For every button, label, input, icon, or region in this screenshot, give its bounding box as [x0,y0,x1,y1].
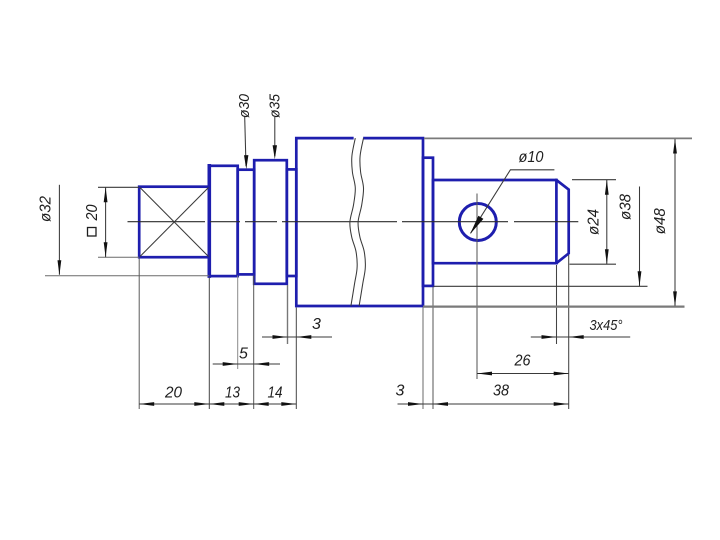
dimension line dia48 [674,139,676,307]
arrow 26 right (points right) [554,372,569,376]
collar lip dia38 [423,158,433,286]
dimension line 5 [213,363,280,365]
dimension line 38 with 3-lip tail [398,403,569,405]
arrow dia38 bottom [638,271,642,286]
arrow chain left at 139 (points left) [139,402,154,406]
leader line dia10 with shelf [471,170,555,233]
centre axis line (dashed) [128,221,579,223]
arrow 5 left (outside, points right) [223,362,238,366]
extension line: square top (for sq20) [98,186,139,188]
svg-text:ø38: ø38 [617,194,634,220]
dimension line dia24 [606,180,608,265]
groove land dia30 (5 mm wide) [238,170,255,275]
svg-text:ø24: ø24 [585,209,602,235]
arrow dia24 bottom [605,249,609,264]
extension line: dia32 bottom [45,275,209,277]
right journal dia24 with 3x45 chamfer [433,180,569,263]
svg-text:14: 14 [268,385,283,402]
svg-text:ø48: ø48 [652,208,669,234]
square end diagonal 2 [140,188,209,257]
shaft section 3 (dia 35) [254,160,287,284]
svg-text:3x45°: 3x45° [590,317,623,334]
extension line: dia48 bottom (grey, thick) [423,306,685,308]
dimension line sq20 [105,187,107,257]
dimension line dia32 [58,185,60,275]
arrow dia48 top [673,139,677,154]
break line left (thin S-curve) [350,138,357,306]
svg-text:26: 26 [514,353,531,370]
arrow 3 lip left (points right) [408,402,423,406]
svg-text:ø35: ø35 [267,93,284,118]
svg-text:ø10: ø10 [519,149,544,166]
square symbol of sq20 label [88,228,97,237]
leader line dia35 [274,117,276,156]
leader line dia30 [245,117,246,166]
extension line: square bottom (sq20) [98,256,139,258]
main body dia48 outline with break gap on top edge [296,138,423,306]
extension line: groove left (5-dim) [237,276,239,370]
arrow 14 right at 296.3 (points right) [281,402,296,406]
dimension line 3 (relief groove) [262,336,332,338]
svg-text:5: 5 [239,346,248,363]
shoulder line between square end and section 2 [208,166,212,276]
arrow 3 groove right (points left) [296,335,311,339]
extension line: dia24 bottom [570,263,617,265]
extension line: dia38 bottom (from lip to right) [434,285,648,287]
svg-text:ø32: ø32 [38,196,55,222]
arrow 26 left (points left) [477,372,492,376]
dimension line chain 20/13/14 [139,403,296,405]
dimension line 26 [477,373,569,375]
arrow chamfer left (points right) [542,335,557,339]
dimension line 3x45 chamfer [531,336,630,338]
arrow 38 right (points right) [554,402,569,406]
svg-text:ø30: ø30 [236,93,253,118]
arrow 38 left (points left) [433,402,448,406]
extension line: chamfer start down (chamfer dim) [556,265,558,344]
break line right (thin S-curve) [358,138,365,306]
arrow 3 groove left (points right) [273,335,288,339]
extension lines of bottom length chain [138,259,140,410]
arrow 5 right (outside, points left) [254,362,269,366]
extension line: end face down (26 / 38 / chamfer) [568,255,570,409]
arrow pair at 253.7 [239,402,254,406]
relief groove 3 mm before main body [287,169,297,276]
arrow sq20 top [104,187,108,202]
dimension line dia38 [639,187,641,287]
svg-text:20: 20 [164,385,182,402]
chamfer edge line [555,180,558,263]
square end diagonal 1 [140,188,209,257]
hole vertical centre line / extension to 26-dim [476,194,478,380]
arrow pair at 209 [194,402,209,406]
shaft section 2 (13 mm) [209,166,237,276]
extension line: lip right edge down (3-lip / 38) [432,287,434,409]
arrow sq20 bottom [104,242,108,257]
arrow dia35 leader [273,145,277,159]
arrow dia48 bottom [673,291,677,306]
extension line: body right edge down (3-lip) [422,308,424,410]
arrow chamfer right (points left) [569,335,584,339]
shaft section 1: square end outline [139,187,209,258]
extension line: relief groove left (3-dim) [287,285,289,344]
svg-text:13: 13 [225,385,240,402]
arrow dia24 top [605,180,609,195]
svg-text:38: 38 [493,383,509,400]
extension line: dia48 top (grey) [424,137,692,139]
svg-text:20: 20 [84,204,101,221]
arrow dia30 leader [244,155,248,169]
cross hole dia10 [459,204,496,241]
svg-text:3: 3 [396,383,405,400]
arrow dia32 bottom [58,260,62,275]
arrow dia10 leader [470,216,483,234]
svg-text:3: 3 [312,316,321,333]
extension line: dia24 top [572,179,616,181]
